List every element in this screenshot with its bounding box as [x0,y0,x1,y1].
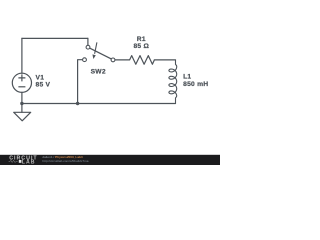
resistor R1 [130,56,155,65]
svg-text:http://circuitlab.com/c/6bu42x: http://circuitlab.com/c/6bu42x7ma [42,159,88,163]
wire switch to resistor [115,59,130,61]
wire top rail drop to switch [87,38,89,45]
wire ground stub [21,104,23,113]
voltage source V1 [12,73,31,92]
switch SW2 terminal bottom-left [83,58,87,62]
svg-text:850 mH: 850 mH [183,81,208,88]
wire resistor to corner and down [154,59,175,61]
inductor L1 [169,60,177,104]
label L1 [183,74,208,88]
label R1 [133,36,149,50]
switch SW2 actuator arrow [92,42,97,59]
switch SW2 terminal top-left [86,45,90,49]
switch SW2 blade [90,48,112,59]
wire bottom rail [22,103,176,105]
svg-text:85 V: 85 V [36,81,51,88]
svg-text:SW2: SW2 [91,69,106,76]
svg-text:LAB: LAB [22,159,36,165]
watermark bar [0,155,220,165]
watermark logo LAB [19,160,22,163]
svg-text:85 Ω: 85 Ω [133,43,149,50]
label V1 value [36,75,51,89]
wire left vertical [21,38,23,73]
wire switch branch vertical [78,60,83,104]
wire V1 bottom to rail [21,92,23,103]
watermark logo resistor squiggle [9,160,18,162]
node junction dot at switch branch [76,102,79,105]
wire top rail [22,37,88,39]
ground [14,112,31,121]
switch SW2 terminal right [111,58,115,62]
svg-text:L1: L1 [183,74,191,81]
node junction dot at V1 ground [20,102,23,105]
